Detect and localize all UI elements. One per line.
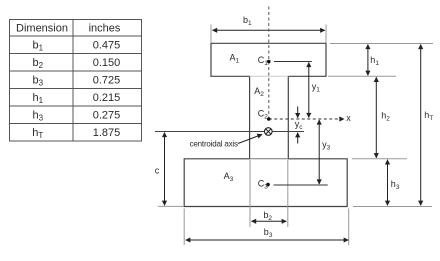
- svg-text:0.475: 0.475: [93, 40, 121, 52]
- svg-text:0.275: 0.275: [93, 110, 121, 122]
- svg-text:inches: inches: [89, 23, 121, 35]
- svg-text:0.150: 0.150: [93, 57, 121, 69]
- svg-text:0.215: 0.215: [93, 92, 121, 104]
- svg-text:0.725: 0.725: [93, 75, 121, 87]
- svg-text:1.875: 1.875: [93, 127, 121, 139]
- svg-text:Dimension: Dimension: [16, 23, 68, 35]
- svg-text:centroidal axis: centroidal axis: [190, 139, 238, 148]
- svg-text:c: c: [155, 166, 160, 176]
- svg-text:x: x: [346, 113, 351, 123]
